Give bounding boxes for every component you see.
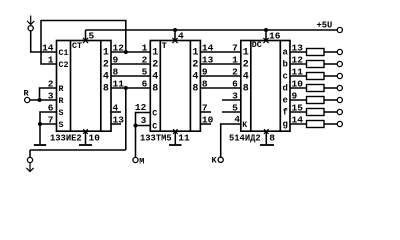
junction ground on pin 11 wire xyxy=(124,86,128,90)
svg-text:T: T xyxy=(162,42,167,51)
svg-text:8: 8 xyxy=(152,84,158,95)
wire IC1 pin 8 to IC2 pin 5 xyxy=(111,75,150,77)
svg-text:1: 1 xyxy=(152,48,158,59)
output terminal d circle xyxy=(337,85,342,90)
IC U2 133TM5 right divider xyxy=(189,41,191,132)
svg-text:C1: C1 xyxy=(59,49,69,58)
svg-text:CT: CT xyxy=(72,42,82,51)
svg-text:8: 8 xyxy=(269,133,275,144)
wire resistor R3 to output terminal xyxy=(324,75,337,77)
svg-text:10: 10 xyxy=(89,133,101,144)
svg-text:+5U: +5U xyxy=(317,20,333,30)
IC U2 power pin 4 stub xyxy=(174,30,176,41)
IC U1 133IE2 left divider xyxy=(70,41,72,132)
IC U2 ground bar xyxy=(169,144,182,146)
IC U2 133TM5 left divider xyxy=(159,41,161,132)
IC U2 ground pin 11 stub xyxy=(174,131,176,144)
wire IC2 pin 12 (C) to M drop xyxy=(136,113,151,126)
wire IC1 pin 11 to IC2 pin 6 xyxy=(111,87,150,89)
svg-text:12: 12 xyxy=(135,102,147,113)
wire resistor R2 to output terminal xyxy=(324,63,337,65)
svg-text:1: 1 xyxy=(243,48,249,59)
input clock terminal arrow xyxy=(30,16,32,25)
resistor R7 xyxy=(307,121,325,128)
svg-text:R: R xyxy=(59,97,64,106)
svg-text:K: K xyxy=(212,156,218,166)
svg-text:g: g xyxy=(282,120,287,130)
+5V terminal circle xyxy=(337,27,342,32)
svg-text:2: 2 xyxy=(152,60,158,71)
wire IC2 pin 14 to IC3 pin 7 xyxy=(200,51,240,53)
svg-text:d: d xyxy=(282,84,287,94)
svg-text:8: 8 xyxy=(243,84,249,95)
M terminal drop wire xyxy=(135,126,137,158)
common terminal drop wire xyxy=(29,150,31,158)
wire resistor R4 to output terminal xyxy=(324,87,337,89)
wire IC3 output a to resistor R1 xyxy=(290,51,307,53)
IC U1 pin 13 stub wire xyxy=(111,123,121,125)
common terminal arrow xyxy=(29,163,31,172)
IC U1 ground pin 10 stub xyxy=(85,131,87,144)
svg-text:2: 2 xyxy=(192,60,198,71)
output terminal f circle xyxy=(337,109,342,114)
svg-text:R: R xyxy=(59,85,64,94)
wire resistor R7 to output terminal xyxy=(324,123,337,125)
wire resistor R1 to output terminal xyxy=(324,51,337,53)
svg-text:C2: C2 xyxy=(59,61,69,70)
svg-text:4: 4 xyxy=(103,72,109,83)
svg-text:514ИД2: 514ИД2 xyxy=(229,133,261,143)
wire input terminal to IC1 pin 14 (C1) xyxy=(31,31,57,52)
svg-text:16: 16 xyxy=(269,31,281,42)
svg-text:133ТМ5: 133ТМ5 xyxy=(140,133,172,143)
resistor R5 xyxy=(307,97,325,104)
output terminal e circle xyxy=(337,97,342,102)
wire IC1 pin 7 xyxy=(40,123,57,125)
svg-text:3: 3 xyxy=(141,115,147,126)
svg-text:4: 4 xyxy=(178,31,184,42)
svg-text:2: 2 xyxy=(243,60,249,71)
junction S pins xyxy=(38,122,42,126)
svg-text:S: S xyxy=(59,109,64,118)
IC U2 pin 7 stub wire xyxy=(200,111,211,113)
svg-text:1: 1 xyxy=(192,48,198,59)
wire IC1 pin 9 to IC2 pin 2 xyxy=(111,63,150,65)
input terminal R circle xyxy=(25,97,30,102)
svg-text:M: M xyxy=(139,157,144,167)
junction feedback on pin 12 wire xyxy=(124,50,128,54)
IC U2 pin 10 stub wire xyxy=(200,123,211,125)
wire IC3 output d to resistor R4 xyxy=(290,87,307,89)
wire IC2 pin 8 to IC3 pin 6 xyxy=(200,87,240,89)
wire IC1 pin 12 to IC2 pin 1 xyxy=(111,51,150,53)
IC U1 power pin 5 stub xyxy=(85,30,87,41)
svg-text:4: 4 xyxy=(243,72,249,83)
svg-text:5: 5 xyxy=(89,31,95,42)
svg-text:8: 8 xyxy=(192,84,198,95)
+5V power rail wire xyxy=(86,29,338,31)
svg-text:4: 4 xyxy=(192,72,198,83)
IC U3 power pin 16 stub xyxy=(265,30,267,41)
IC U1 133IE2 right divider xyxy=(100,41,102,132)
IC U1 pin 4 stub wire xyxy=(111,111,121,113)
wire R junction up to IC1 pin 2 xyxy=(40,88,57,100)
S pins ground bar xyxy=(34,144,46,146)
output terminal a circle xyxy=(337,49,342,54)
junction C pins xyxy=(134,124,138,128)
output terminal b circle xyxy=(337,61,342,66)
ground drop from pin 11 wire to bus xyxy=(125,88,127,150)
junction R wire xyxy=(38,98,42,102)
resistor R2 xyxy=(307,61,325,68)
svg-text:S: S xyxy=(59,121,64,130)
output terminal g circle xyxy=(337,121,342,126)
K terminal circle xyxy=(218,157,223,162)
wire R terminal to IC1 pin 3 xyxy=(30,99,56,101)
IC U1 133IE2 box xyxy=(57,41,112,132)
M terminal circle xyxy=(133,157,138,162)
wire IC3 output b to resistor R2 xyxy=(290,63,307,65)
wire IC2 pin 3 (C) xyxy=(136,125,151,127)
svg-text:C: C xyxy=(152,123,157,132)
resistor R1 xyxy=(307,49,325,56)
IC U3 514ID2 box xyxy=(241,41,290,132)
output terminal c circle xyxy=(337,73,342,78)
svg-text:K: K xyxy=(242,121,247,130)
svg-text:b: b xyxy=(282,60,287,70)
wire IC3 output f to resistor R6 xyxy=(290,111,307,113)
svg-text:e: e xyxy=(282,96,287,106)
wire IC3 output g to resistor R7 xyxy=(290,123,307,125)
wire IC1 pin 6 to ground drop xyxy=(40,112,57,124)
common terminal circle xyxy=(27,157,32,162)
svg-text:1: 1 xyxy=(103,48,109,59)
svg-text:4: 4 xyxy=(152,72,158,83)
svg-text:c: c xyxy=(282,72,287,82)
svg-text:11: 11 xyxy=(178,133,190,144)
resistor R6 xyxy=(307,109,325,116)
ground bus wire xyxy=(30,149,126,151)
IC U3 514ID2 left divider xyxy=(250,41,252,132)
wire IC3 pin 4 (K) to K terminal xyxy=(221,124,241,157)
svg-text:8: 8 xyxy=(103,84,109,95)
IC U3 ground pin 8 stub xyxy=(265,131,267,144)
wire IC2 pin 13 to IC3 pin 1 xyxy=(200,63,240,65)
svg-text:f: f xyxy=(282,108,287,118)
svg-text:133ИЕ2: 133ИЕ2 xyxy=(50,133,82,143)
wire IC3 output c to resistor R3 xyxy=(290,75,307,77)
svg-text:C: C xyxy=(152,110,157,119)
IC U3 pin 3 stub wire xyxy=(222,99,241,101)
resistor R4 xyxy=(307,85,325,92)
IC U2 133TM5 box xyxy=(150,41,200,132)
S pins ground drop wire xyxy=(39,124,41,144)
IC U3 514ID2 right divider xyxy=(279,41,281,132)
IC U1 ground bar xyxy=(79,144,92,146)
svg-text:DC: DC xyxy=(252,41,262,50)
resistor R3 xyxy=(307,73,325,80)
wire IC2 pin 9 to IC3 pin 2 xyxy=(200,75,240,77)
svg-text:2: 2 xyxy=(103,60,109,71)
wire resistor R5 to output terminal xyxy=(324,99,337,101)
input clock terminal circle xyxy=(28,26,33,31)
svg-text:a: a xyxy=(282,48,288,58)
wire resistor R6 to output terminal xyxy=(324,111,337,113)
feedback wire IC1 pin 12 to pin 1 xyxy=(41,21,126,65)
IC U3 ground bar xyxy=(260,144,274,146)
wire IC3 output e to resistor R5 xyxy=(290,99,307,101)
IC U3 pin 5 stub wire xyxy=(222,111,241,113)
